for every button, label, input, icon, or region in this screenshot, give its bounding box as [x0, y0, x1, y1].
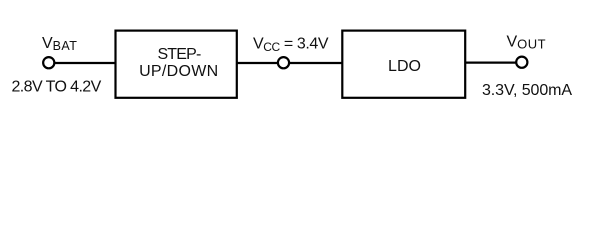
svg-text:UP/DOWN: UP/DOWN — [139, 63, 218, 80]
svg-text:LDO: LDO — [388, 58, 421, 75]
svg-text:2.8V TO 4.2V: 2.8V TO 4.2V — [12, 79, 102, 96]
svg-text:STEP-: STEP- — [157, 46, 201, 63]
svg-text:3.3V, 500mA: 3.3V, 500mA — [482, 82, 572, 99]
svg-text:VOUT: VOUT — [507, 34, 547, 52]
